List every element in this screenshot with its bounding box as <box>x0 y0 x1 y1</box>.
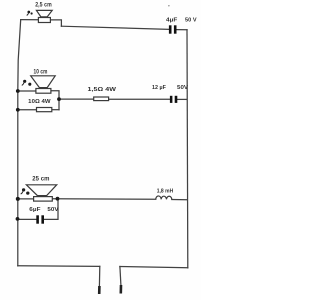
wire node A to R1 <box>59 98 94 100</box>
wire C1 to right rail <box>177 29 188 31</box>
wire mid speaker to node column <box>51 91 59 110</box>
svg-text:10Ω 4W: 10Ω 4W <box>28 99 51 105</box>
svg-text:2,5 cm: 2,5 cm <box>35 1 52 8</box>
wire mid row rail to speaker <box>18 90 36 92</box>
wire C3 to node column <box>44 199 58 220</box>
svg-text:6µF: 6µF <box>29 207 41 213</box>
capacitor C3 6uF <box>36 215 44 223</box>
terminal tip right <box>120 285 123 294</box>
svg-text:10 cm: 10 cm <box>34 68 48 75</box>
inductor L1 1.8mH <box>156 196 172 200</box>
svg-text:50V: 50V <box>177 85 188 91</box>
wire woofer to inductor <box>52 198 156 201</box>
svg-text:50V: 50V <box>47 207 58 213</box>
capacitor C1 4uF <box>169 25 177 33</box>
resistor R2 10ohm 4W <box>37 108 52 112</box>
svg-text:50 V: 50 V <box>185 17 197 23</box>
polarity mark woofer <box>21 188 30 195</box>
wire bottom right <box>120 267 188 268</box>
wire inductor to right rail <box>172 199 187 201</box>
polarity mark tweeter <box>27 11 33 16</box>
svg-text:1,8 mH: 1,8 mH <box>157 188 174 194</box>
wire rail to C3 <box>18 218 37 220</box>
wire R1 to C2 <box>109 98 170 100</box>
wire R2 to node column <box>52 109 59 111</box>
polarity mark midrange <box>22 80 32 86</box>
svg-text:4µF: 4µF <box>166 17 178 23</box>
svg-text:25 cm: 25 cm <box>32 176 50 183</box>
junction dots woofer row <box>16 197 60 221</box>
speaker LS2 10cm midrange <box>31 76 56 93</box>
svg-text:1,5Ω 4W: 1,5Ω 4W <box>88 87 117 93</box>
speck <box>168 5 169 6</box>
wire rail to R2 <box>18 109 37 111</box>
wire C2 to right rail <box>177 98 187 100</box>
wire left rail <box>18 20 21 266</box>
speaker LS1 2.5cm tweeter <box>36 10 52 22</box>
wire bottom left <box>18 265 100 268</box>
wire woofer row rail to speaker <box>18 198 34 200</box>
wire step to C1 <box>61 26 168 29</box>
wire right terminal drop <box>120 267 121 286</box>
wire tweeter row left <box>21 19 39 21</box>
wire tweeter row to step <box>50 20 61 26</box>
node A junction dots mid row <box>16 89 61 112</box>
terminal tip left <box>98 286 101 294</box>
capacitor C2 12uF <box>170 96 177 103</box>
resistor R1 1.5ohm 4W <box>94 97 109 101</box>
speaker LS3 25cm woofer <box>26 185 56 201</box>
svg-text:12 µF: 12 µF <box>152 85 166 91</box>
wire left terminal drop <box>98 266 100 286</box>
wire right rail <box>186 30 189 268</box>
